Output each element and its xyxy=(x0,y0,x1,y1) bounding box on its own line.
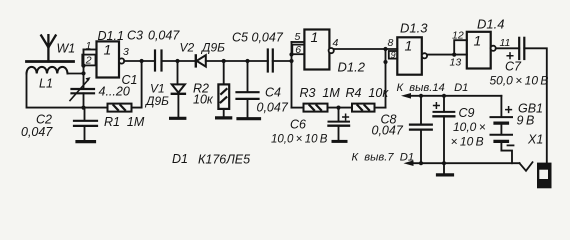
ground (C6) xyxy=(333,140,346,143)
gate D1.3 xyxy=(389,37,427,74)
wire D1.2 out to D1.3 xyxy=(334,48,398,50)
svg-text:10,0 ×: 10,0 × xyxy=(453,120,486,134)
capacitor C4 xyxy=(237,61,259,117)
diode V2 xyxy=(196,55,206,66)
svg-text:1: 1 xyxy=(104,42,112,58)
svg-text:L1: L1 xyxy=(39,77,53,91)
svg-text:D1.3: D1.3 xyxy=(400,21,428,36)
ground (C4) xyxy=(238,117,260,120)
wire pin12 riser xyxy=(454,40,467,54)
capacitor C5 xyxy=(268,50,273,72)
node R2 junction xyxy=(222,59,226,63)
svg-text:4: 4 xyxy=(333,37,339,49)
svg-text:V2: V2 xyxy=(180,41,195,55)
svg-text:D1.4: D1.4 xyxy=(477,17,504,32)
battery GB1 xyxy=(491,96,514,163)
svg-text:R1 1М: R1 1М xyxy=(104,115,145,129)
svg-text:К выв.7 D1: К выв.7 D1 xyxy=(352,152,415,164)
svg-text:C5: C5 xyxy=(232,30,248,44)
svg-text:8: 8 xyxy=(388,37,394,49)
node R3/R4 junction xyxy=(336,106,340,110)
node V1 junction xyxy=(175,59,179,63)
svg-text:12: 12 xyxy=(452,30,464,42)
resistor R2 xyxy=(218,61,229,116)
svg-text:C4: C4 xyxy=(265,86,281,100)
resistor R1 xyxy=(108,104,132,112)
svg-text:9 В: 9 В xyxy=(517,114,535,128)
capacitor C9 (electrolytic) xyxy=(434,96,455,163)
node tank top junction xyxy=(81,71,85,75)
svg-text:Д9Б: Д9Б xyxy=(144,94,169,108)
connector X1 plug (V) xyxy=(520,162,533,171)
svg-text:К выв.14 D1: К выв.14 D1 xyxy=(397,82,469,94)
svg-text:10к: 10к xyxy=(193,93,214,107)
svg-text:0,047: 0,047 xyxy=(257,101,289,115)
svg-text:C7: C7 xyxy=(505,60,522,74)
wire C7 to output jack xyxy=(524,48,547,162)
svg-text:D1.2: D1.2 xyxy=(338,60,366,75)
capacitor C3 xyxy=(155,51,162,71)
svg-text:Д9Б: Д9Б xyxy=(200,41,225,55)
resistor R4 xyxy=(352,104,386,112)
svg-text:0,047: 0,047 xyxy=(372,124,404,138)
svg-text:× 10 В: × 10 В xyxy=(451,135,484,149)
wire feedback vertical xyxy=(385,49,387,108)
svg-text:2: 2 xyxy=(85,55,92,67)
capacitor C1 (variable) xyxy=(70,77,94,108)
connector X1 socket (black) xyxy=(537,163,552,189)
wire D1.2 input vertical xyxy=(291,42,293,108)
wire tank left loop xyxy=(27,74,108,108)
svg-text:50,0 × 10 В: 50,0 × 10 В xyxy=(490,74,549,88)
svg-text:1: 1 xyxy=(86,40,92,52)
antenna W1 xyxy=(27,35,74,61)
node D1.2 in junction a xyxy=(289,52,293,56)
wire V2 to C5 xyxy=(206,60,268,62)
diode V1 xyxy=(172,61,185,117)
svg-text:1: 1 xyxy=(474,33,482,49)
gate D1.2 xyxy=(292,30,334,70)
node D1.2 in junction b xyxy=(289,59,293,63)
svg-text:C6: C6 xyxy=(290,118,306,132)
power rail K vyv 14 xyxy=(401,93,501,99)
wire D1.1 input vertical xyxy=(83,50,85,90)
node C4 junction xyxy=(245,59,249,63)
svg-text:0,047: 0,047 xyxy=(252,30,284,44)
svg-text:5: 5 xyxy=(295,31,301,43)
wire R1 to output node xyxy=(132,61,142,108)
svg-text:9: 9 xyxy=(391,50,396,60)
svg-text:W1: W1 xyxy=(57,42,76,56)
capacitor C2 xyxy=(74,108,97,141)
node tank bottom junction xyxy=(81,106,85,110)
svg-text:R3 1М: R3 1М xyxy=(300,86,341,100)
svg-text:6: 6 xyxy=(295,44,301,56)
wire D1.3 out to D1.4 xyxy=(427,54,467,56)
resistor R3 xyxy=(292,104,353,112)
wire C3 to V2 xyxy=(162,60,196,62)
node C9 top xyxy=(442,94,446,98)
node C8 top xyxy=(419,94,423,98)
svg-text:3: 3 xyxy=(123,46,129,58)
gate D1.1 xyxy=(82,41,124,77)
svg-text:R4 10к: R4 10к xyxy=(346,86,390,100)
node feedback junction xyxy=(383,47,387,51)
ground (C2) xyxy=(77,140,95,143)
wire D1.4 out to C7 xyxy=(496,47,519,49)
svg-text:0,047: 0,047 xyxy=(21,125,53,139)
gate D1.4 xyxy=(467,32,496,69)
ground rail K vyv 7 xyxy=(404,160,520,166)
svg-text:1: 1 xyxy=(405,38,413,54)
node C9 bottom / ground tap xyxy=(442,161,446,165)
capacitor C6 (electrolytic) xyxy=(329,108,350,141)
svg-text:0,047: 0,047 xyxy=(148,28,180,42)
svg-text:13: 13 xyxy=(450,57,462,69)
svg-text:D1: D1 xyxy=(172,152,188,166)
svg-text:К176ЛЕ5: К176ЛЕ5 xyxy=(198,153,250,167)
ground (V1) xyxy=(171,117,185,120)
svg-text:X1: X1 xyxy=(527,133,543,147)
wire C5 to D1.2 input xyxy=(273,60,292,62)
node R1/output junction xyxy=(140,59,144,63)
wire D1.1 out to C3 xyxy=(124,60,155,62)
svg-text:C3: C3 xyxy=(127,28,143,42)
node C8 bottom xyxy=(419,161,423,165)
svg-text:C9: C9 xyxy=(459,106,475,120)
svg-text:10,0 × 10 В: 10,0 × 10 В xyxy=(271,134,328,146)
ground (R2) xyxy=(217,116,231,119)
ground (rail) xyxy=(438,163,453,175)
svg-text:1: 1 xyxy=(311,29,319,45)
capacitor C7 (electrolytic) xyxy=(507,38,524,59)
node input tie junction xyxy=(81,64,85,68)
node pin12 junction xyxy=(452,53,456,57)
capacitor C8 xyxy=(410,96,432,163)
inductor L1 xyxy=(27,67,84,74)
svg-text:4...20: 4...20 xyxy=(99,85,130,99)
node pin9 tie xyxy=(383,60,387,64)
